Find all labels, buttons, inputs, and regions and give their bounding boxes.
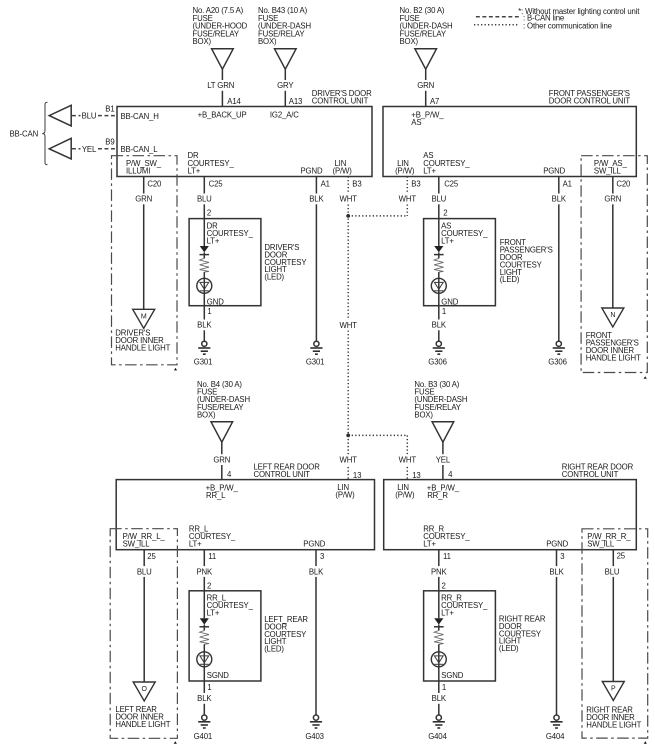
front passenger's door control unit box	[383, 107, 636, 177]
svg-text:G301: G301	[194, 357, 212, 366]
svg-text:PGND: PGND	[543, 167, 565, 176]
svg-text:LT+: LT+	[423, 540, 436, 549]
svg-text:A1: A1	[563, 179, 572, 188]
svg-text:HANDLE LIGHT: HANDLE LIGHT	[586, 354, 641, 363]
svg-text:4: 4	[227, 470, 232, 479]
svg-text:13: 13	[412, 471, 420, 480]
svg-text:3: 3	[560, 552, 564, 561]
svg-text:11: 11	[443, 552, 451, 561]
asterisk marker driver inner handle box	[174, 368, 177, 371]
svg-text:4: 4	[448, 470, 453, 479]
right rear door control unit box	[384, 480, 637, 550]
svg-text:G306: G306	[428, 357, 446, 366]
svg-text:GND: GND	[207, 298, 224, 307]
svg-text:LT+: LT+	[441, 236, 454, 245]
svg-text:DOOR CONTROL UNIT: DOOR CONTROL UNIT	[549, 97, 631, 106]
svg-text:PGND: PGND	[301, 167, 323, 176]
svg-text:LT+: LT+	[441, 609, 454, 618]
svg-text:A14: A14	[227, 97, 241, 106]
right rear door inner handle light bulb P	[602, 682, 624, 701]
ground G404 PGND	[554, 715, 559, 720]
svg-text:B1: B1	[105, 104, 114, 113]
asterisk marker passenger inner handle box	[644, 376, 647, 379]
svg-text:PGND: PGND	[546, 540, 568, 549]
node LIN junction upper	[346, 214, 350, 218]
svg-text:LT+: LT+	[423, 167, 436, 176]
svg-text:SGND: SGND	[441, 671, 463, 680]
svg-text:BLK: BLK	[197, 321, 212, 330]
wire WHT dotted LIN pin B3 passenger	[406, 177, 408, 216]
svg-text:BB-CAN_L: BB-CAN_L	[121, 145, 159, 154]
svg-text:SGND: SGND	[207, 671, 229, 680]
svg-text:25: 25	[617, 552, 626, 561]
svg-text:YEL: YEL	[436, 455, 451, 464]
svg-text:BOX): BOX)	[258, 37, 277, 46]
svg-text:GRN: GRN	[135, 195, 152, 204]
svg-text:BB-CAN_H: BB-CAN_H	[121, 112, 159, 121]
ground G403	[313, 715, 318, 720]
svg-text:G404: G404	[428, 732, 447, 741]
driver's door control unit box	[117, 107, 372, 177]
svg-text:1: 1	[207, 307, 211, 316]
svg-text:A1: A1	[321, 179, 330, 188]
fuse B3 symbol	[432, 422, 454, 442]
wire YEL dashed to pin B9	[72, 148, 117, 150]
svg-text:11: 11	[208, 552, 216, 561]
svg-text:A7: A7	[430, 97, 439, 106]
driver's door inner handle light dash-dot box	[112, 156, 178, 365]
wire dotted junction driver-passenger LIN	[348, 215, 407, 217]
svg-text:1: 1	[442, 307, 446, 316]
svg-text:C25: C25	[444, 179, 459, 188]
svg-text:B3: B3	[352, 179, 361, 188]
svg-text:IG2_A/C: IG2_A/C	[270, 110, 299, 119]
svg-text:BOX): BOX)	[414, 411, 433, 420]
wire BLU dashed to pin B1	[72, 115, 117, 117]
svg-text:+B_BACK_UP: +B_BACK_UP	[198, 110, 247, 119]
svg-text:(P/W): (P/W)	[395, 167, 415, 176]
svg-text:1: 1	[442, 683, 446, 692]
BB-CAN_L connector triangle	[49, 138, 71, 159]
left rear door inner handle light dash-dot box	[110, 529, 177, 739]
wire BLK pin 3 to ground G403	[315, 550, 317, 716]
svg-text:G301: G301	[306, 357, 324, 366]
wire BLU pin 25 to right rear inner handle light	[612, 550, 614, 682]
svg-text:2: 2	[207, 208, 211, 217]
front passenger's door inner handle light bulb N	[602, 308, 624, 327]
svg-text:PNK: PNK	[431, 567, 448, 576]
wire dotted junction rear LIN	[348, 434, 407, 436]
svg-text:WHT: WHT	[340, 195, 358, 204]
wire GRY fuse B43 to pin A13	[284, 69, 286, 106]
svg-text:C25: C25	[209, 179, 224, 188]
svg-text:BLU: BLU	[431, 195, 446, 204]
svg-text:CONTROL UNIT: CONTROL UNIT	[312, 97, 369, 106]
svg-text:LT+: LT+	[188, 167, 201, 176]
svg-text:SW_ILL: SW_ILL	[594, 167, 622, 176]
svg-text:M: M	[141, 314, 147, 321]
svg-text:(P/W): (P/W)	[335, 490, 355, 499]
svg-text:LT+: LT+	[207, 236, 220, 245]
svg-text:PGND: PGND	[303, 540, 325, 549]
wire GRN fuse B4 to pin 4	[221, 442, 223, 479]
svg-text:BLU: BLU	[137, 567, 152, 576]
svg-text:N: N	[610, 312, 615, 319]
svg-text:WHT: WHT	[340, 321, 358, 330]
ground G306 PGND	[556, 341, 561, 346]
svg-text:P: P	[611, 686, 616, 693]
right rear door inner handle light dash-dot box	[582, 529, 648, 738]
svg-text:HANDLE LIGHT: HANDLE LIGHT	[586, 721, 641, 730]
right rear door courtesy light box	[424, 591, 496, 681]
wire GRN fuse B2 to pin A7	[425, 69, 427, 106]
svg-text:2: 2	[207, 581, 211, 590]
wire PNK pin 11 to left rear courtesy light	[203, 550, 205, 591]
svg-text:C20: C20	[616, 179, 631, 188]
wire YEL fuse B3 to pin 4	[442, 442, 444, 479]
svg-text:: Other communication line: : Other communication line	[523, 21, 612, 30]
legend: B-CAN line sample	[476, 16, 520, 18]
svg-text:BOX): BOX)	[197, 411, 216, 420]
svg-text:RR_L: RR_L	[206, 491, 226, 500]
fuse A20 symbol	[212, 49, 234, 69]
svg-text:WHT: WHT	[340, 455, 358, 464]
svg-text:2: 2	[443, 208, 447, 217]
wire WHT dotted to left rear pin 13	[347, 435, 349, 479]
svg-text:G403: G403	[305, 732, 323, 741]
svg-text:LT GRN: LT GRN	[207, 81, 234, 90]
node LIN junction lower	[346, 434, 350, 438]
wire GRN pin C20 to driver's inner handle light	[143, 177, 145, 310]
left rear door courtesy light box	[189, 591, 261, 681]
svg-text:BLU: BLU	[197, 195, 212, 204]
svg-text:BOX): BOX)	[400, 37, 419, 46]
svg-text:C20: C20	[147, 179, 162, 188]
svg-text:BLK: BLK	[549, 567, 564, 576]
asterisk marker left rear inner handle box	[174, 741, 177, 744]
svg-text:BLK: BLK	[552, 195, 567, 204]
svg-text:PNK: PNK	[197, 567, 214, 576]
wire BLK pin 3 to ground G404	[556, 550, 558, 716]
wire BLU pin C25 passenger to courtesy light	[438, 177, 440, 219]
wire BLU pin 25 to left rear inner handle light	[143, 550, 145, 682]
svg-text:B3: B3	[411, 179, 420, 188]
svg-text:GRN: GRN	[604, 195, 621, 204]
driver's door inner handle light bulb M	[133, 309, 155, 328]
svg-text:HANDLE LIGHT: HANDLE LIGHT	[115, 720, 170, 729]
svg-text:AS: AS	[411, 118, 421, 127]
svg-text:HANDLE LIGHT: HANDLE LIGHT	[115, 343, 170, 352]
svg-text:BLK: BLK	[309, 195, 324, 204]
ground G404 courtesy light	[436, 715, 441, 720]
svg-text:G401: G401	[194, 732, 212, 741]
driver courtesy LED internals	[203, 219, 205, 246]
wire BLU pin C25 to courtesy light pin 2	[203, 177, 205, 219]
svg-text:(LED): (LED)	[264, 273, 284, 282]
wire courtesy light GND to pin 1	[203, 291, 205, 341]
wire PNK pin 11 to right rear courtesy light	[438, 550, 440, 591]
svg-text:BB-CAN: BB-CAN	[10, 129, 39, 138]
svg-text:CONTROL UNIT: CONTROL UNIT	[254, 470, 311, 479]
BB-CAN_H connector triangle	[49, 105, 71, 126]
svg-text:BLK: BLK	[197, 694, 212, 703]
svg-text:(LED): (LED)	[499, 644, 519, 653]
left rear courtesy LED internals	[203, 591, 205, 618]
svg-text:3: 3	[320, 552, 324, 561]
svg-text:WHT: WHT	[399, 195, 417, 204]
svg-text:BLK: BLK	[432, 694, 447, 703]
right rear courtesy LED internals	[438, 591, 440, 618]
legend: other communication line sample	[474, 24, 520, 26]
wire LT GRN fuse A20 to pin A14	[221, 69, 223, 106]
wire WHT dotted to right rear pin 13	[406, 435, 408, 479]
svg-text:GRY: GRY	[277, 81, 294, 90]
svg-text:13: 13	[353, 471, 361, 480]
fuse B43 symbol	[275, 49, 297, 69]
svg-text:GND: GND	[441, 298, 458, 307]
svg-text:CONTROL UNIT: CONTROL UNIT	[562, 470, 619, 479]
BB-CAN brace	[42, 102, 47, 164]
svg-text:A13: A13	[289, 97, 302, 106]
ground G401	[202, 715, 207, 720]
front passenger's door courtesy light box	[424, 219, 496, 306]
svg-text:BLU: BLU	[605, 567, 620, 576]
svg-text:(P/W): (P/W)	[333, 167, 353, 176]
fuse B4 symbol	[211, 422, 233, 442]
driver's door courtesy light box	[189, 219, 261, 306]
svg-text:GRN: GRN	[417, 81, 434, 90]
svg-text:(P/W): (P/W)	[395, 490, 415, 499]
svg-text:ILLUMI: ILLUMI	[126, 167, 150, 176]
wire BLK pin A1 to ground G301	[315, 177, 317, 342]
asterisk marker right rear inner handle box	[644, 741, 647, 744]
passenger courtesy LED internals	[438, 219, 440, 246]
wire WHT dotted LIN pin B3 driver	[347, 177, 349, 436]
svg-text:B9: B9	[105, 138, 114, 147]
wire courtesy SGND to pin 1 right rear	[438, 665, 440, 716]
wire GRN pin C20 passenger to inner handle light	[612, 177, 614, 309]
svg-text:(LED): (LED)	[264, 645, 284, 654]
svg-text:SW_ILL: SW_ILL	[587, 540, 615, 549]
left rear door inner handle light bulb O	[133, 682, 155, 701]
wire courtesy SGND to pin 1 left rear	[203, 665, 205, 716]
svg-text:25: 25	[147, 552, 156, 561]
svg-text:1: 1	[207, 683, 211, 692]
svg-text:BLU: BLU	[82, 112, 97, 121]
fuse B2 symbol	[415, 49, 437, 69]
wire BLK pin A1 passenger to ground G306	[558, 177, 560, 342]
svg-text:BLK: BLK	[309, 567, 324, 576]
svg-text:G404: G404	[546, 732, 565, 741]
svg-text:2: 2	[442, 581, 446, 590]
svg-text:BOX): BOX)	[193, 37, 212, 46]
svg-text:SW_ILL: SW_ILL	[123, 540, 151, 549]
svg-text:RR_R: RR_R	[427, 491, 448, 500]
svg-text:LT+: LT+	[207, 609, 220, 618]
svg-text:(LED): (LED)	[500, 275, 520, 284]
svg-text:BLK: BLK	[432, 321, 447, 330]
front passenger's door inner handle light dash-dot box	[581, 156, 647, 373]
ground G306 courtesy light	[436, 341, 441, 346]
svg-text:LT+: LT+	[189, 540, 202, 549]
wire courtesy GND to pin 1 passenger	[438, 291, 440, 341]
svg-text:G306: G306	[548, 357, 566, 366]
svg-text:WHT: WHT	[399, 455, 417, 464]
svg-text:GRN: GRN	[213, 455, 230, 464]
svg-text:O: O	[142, 686, 148, 693]
ground G301 PGND	[314, 341, 319, 346]
left rear door control unit box	[116, 480, 374, 550]
ground G301 courtesy light	[202, 341, 207, 346]
svg-text:YEL: YEL	[82, 145, 97, 154]
